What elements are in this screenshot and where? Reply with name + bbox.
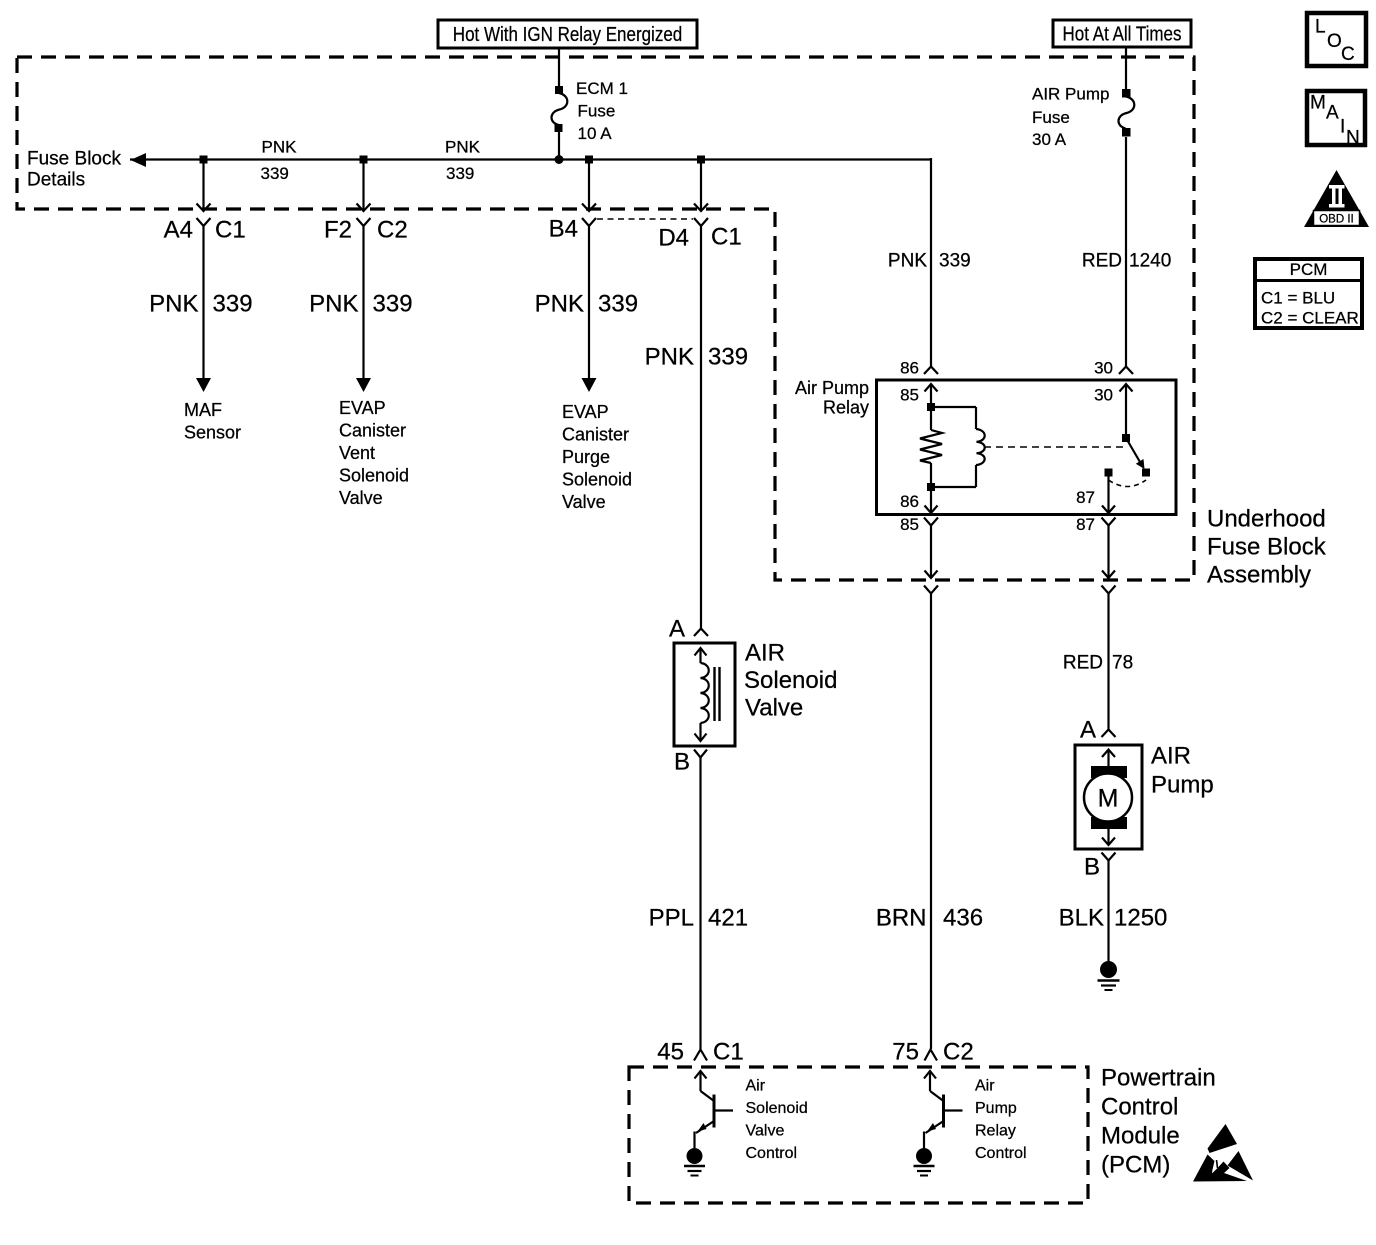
ESD sensitive device symbol: [1193, 1124, 1253, 1182]
svg-text:Fuse: Fuse: [1032, 108, 1070, 127]
svg-text:A4: A4: [164, 216, 193, 243]
svg-text:78: 78: [1112, 653, 1133, 674]
svg-text:Valve: Valve: [562, 492, 606, 512]
relay pin 85 arrow inside: [925, 384, 938, 404]
svg-text:Fuse Block: Fuse Block: [1207, 533, 1327, 560]
svg-text:1240: 1240: [1129, 251, 1171, 272]
connector Y F2/C2: [357, 218, 371, 226]
svg-text:Air: Air: [746, 1078, 766, 1095]
solenoid core bars: [713, 667, 715, 721]
svg-text:Canister: Canister: [339, 421, 406, 441]
junction B4 branch: [585, 156, 593, 164]
svg-text:RED: RED: [1063, 653, 1103, 674]
fuse AIR Pump 30A: [1118, 89, 1134, 137]
svg-text:339: 339: [446, 164, 474, 183]
svg-text:BRN: BRN: [876, 904, 927, 931]
svg-text:30: 30: [1094, 359, 1113, 378]
svg-text:Canister: Canister: [562, 425, 629, 445]
wire PNK 339 to MAF: [202, 226, 204, 379]
arrow into fuse block detail boundary: [197, 204, 211, 212]
svg-text:A: A: [669, 615, 685, 642]
svg-text:L: L: [1315, 17, 1326, 38]
svg-text:BLK: BLK: [1059, 904, 1104, 931]
relay coil resistor: [920, 411, 942, 483]
connector Y A4/C1: [197, 218, 211, 226]
svg-text:AIR Pump: AIR Pump: [1032, 85, 1109, 104]
wire PNK 339 bus corner to relay pin 86: [930, 158, 932, 366]
svg-text:N: N: [1346, 128, 1360, 149]
svg-text:Module: Module: [1101, 1122, 1180, 1149]
svg-text:Valve: Valve: [745, 694, 803, 721]
svg-text:O: O: [1327, 31, 1342, 52]
ground G107: [1098, 961, 1120, 990]
svg-text:Fuse Block: Fuse Block: [27, 149, 121, 170]
banner Hot With IGN Relay Energized: [438, 20, 697, 48]
svg-text:Air: Air: [975, 1078, 995, 1095]
connector at relay pin 30: [1119, 367, 1133, 375]
pin B connector of AIR pump: [1102, 853, 1116, 861]
relay switch common contact: [1122, 434, 1130, 442]
svg-text:D4: D4: [658, 224, 689, 251]
relay pin 30 arrow inside: [1120, 384, 1133, 434]
svg-text:Pump: Pump: [975, 1100, 1017, 1117]
connector 75 C2 at PCM: [925, 1050, 938, 1061]
svg-text:Hot At All Times: Hot At All Times: [1063, 22, 1182, 45]
connector Y B4: [582, 218, 596, 226]
transistor driver air pump relay control: [924, 1071, 963, 1148]
svg-text:45: 45: [657, 1038, 684, 1065]
svg-text:PNK: PNK: [888, 251, 927, 272]
junction A4 branch: [200, 156, 208, 164]
wire relay 85 to underhood boundary: [930, 526, 932, 579]
transistor driver air solenoid valve control: [695, 1071, 734, 1148]
wire B4 branch: [588, 160, 590, 211]
svg-text:10 A: 10 A: [578, 124, 613, 143]
banner Hot At All Times: [1053, 20, 1191, 47]
svg-text:Assembly: Assembly: [1207, 561, 1311, 588]
relay switch contact 87 side: [1142, 469, 1150, 477]
wire PNK 339 to EVAP vent valve: [362, 226, 364, 379]
connector Y D4/C1: [694, 218, 708, 226]
AIR pump box: [1075, 745, 1142, 849]
dashed connector group line B4 to D4: [597, 218, 693, 220]
svg-text:PCM: PCM: [1290, 260, 1328, 279]
svg-text:436: 436: [943, 904, 983, 931]
relay switch arm: [1126, 438, 1140, 462]
connector 45 C1 at PCM: [694, 1050, 707, 1061]
dashed boundary PCM: [629, 1067, 1088, 1203]
svg-text:339: 339: [373, 290, 413, 317]
dashed boundary fuse block / underhood assembly: [17, 57, 1194, 580]
svg-text:AIR: AIR: [745, 639, 785, 666]
dashed actuation link coil to switch: [984, 446, 1127, 448]
svg-text:Powertrain: Powertrain: [1101, 1064, 1216, 1091]
junction dot fuse/bus: [555, 155, 564, 164]
svg-text:30: 30: [1094, 386, 1113, 405]
svg-text:EVAP: EVAP: [339, 398, 386, 418]
svg-text:B: B: [1084, 853, 1100, 880]
fuse ECM 1 10A: [551, 86, 567, 132]
wire PNK 339 to AIR solenoid valve: [700, 226, 702, 628]
svg-text:Relay: Relay: [975, 1123, 1016, 1140]
arrowhead to EVAP purge valve: [582, 378, 597, 392]
svg-text:PNK: PNK: [309, 290, 358, 317]
connector at relay pin 86: [924, 367, 938, 375]
svg-text:M: M: [1098, 785, 1119, 813]
svg-text:86: 86: [900, 359, 919, 378]
svg-text:Purge: Purge: [562, 447, 610, 467]
svg-text:Underhood: Underhood: [1207, 505, 1326, 532]
dashed travel arc of switch: [1109, 480, 1147, 487]
wire F2 branch: [362, 160, 364, 211]
svg-text:Valve: Valve: [339, 488, 383, 508]
motor M inside AIR pump: [1084, 750, 1132, 846]
svg-text:PNK: PNK: [535, 290, 584, 317]
arrowhead to MAF sensor: [196, 378, 211, 392]
svg-text:Solenoid: Solenoid: [339, 466, 409, 486]
svg-text:OBD II: OBD II: [1319, 214, 1354, 226]
svg-text:Solenoid: Solenoid: [562, 470, 632, 490]
wire RED 1240 from AIR pump fuse to relay pin 30: [1125, 137, 1127, 366]
svg-text:339: 339: [213, 290, 253, 317]
svg-text:C: C: [1341, 44, 1355, 65]
wire from Hot At All Times banner to fuse: [1125, 47, 1127, 90]
ground inside PCM right: [914, 1148, 935, 1176]
svg-text:C2 = CLEAR: C2 = CLEAR: [1261, 309, 1359, 328]
junction relay coil bottom: [927, 483, 935, 491]
wire from IGN banner to fuse: [558, 48, 560, 87]
svg-text:Pump: Pump: [1151, 771, 1214, 798]
wire BLK 1250 to ground: [1107, 861, 1109, 963]
svg-text:C1: C1: [711, 223, 742, 250]
svg-text:86: 86: [900, 492, 919, 511]
svg-text:A: A: [1326, 103, 1339, 124]
arrow into fuse block detail boundary: [357, 204, 371, 212]
ground inside PCM left: [684, 1148, 705, 1176]
relay pin 87 arrow to box bottom: [1102, 477, 1115, 514]
connector below underhood boundary 85: [924, 586, 938, 594]
arrow into fuse block detail boundary: [582, 204, 596, 212]
svg-text:MAF: MAF: [184, 400, 222, 420]
svg-text:B: B: [674, 748, 690, 775]
svg-text:Fuse: Fuse: [578, 102, 616, 121]
svg-text:C1: C1: [215, 216, 246, 243]
arrow into fuse block detail boundary: [694, 204, 708, 212]
relay switch contact left: [1105, 469, 1113, 477]
svg-text:C2: C2: [377, 216, 408, 243]
svg-text:M: M: [1310, 93, 1326, 114]
svg-text:EVAP: EVAP: [562, 402, 609, 422]
connector below underhood boundary 87: [1102, 586, 1116, 594]
svg-text:C2: C2: [943, 1038, 974, 1065]
svg-text:30 A: 30 A: [1032, 130, 1067, 149]
svg-text:ECM 1: ECM 1: [576, 79, 628, 98]
svg-text:B4: B4: [549, 215, 578, 242]
relay pin 85 connector below box: [924, 518, 938, 526]
svg-text:339: 339: [598, 290, 638, 317]
wire relay 87 to underhood boundary: [1107, 526, 1109, 579]
junction D4 branch: [697, 156, 705, 164]
legend PCM connector colors: [1255, 259, 1362, 328]
svg-text:Control: Control: [1101, 1093, 1178, 1120]
svg-text:Control: Control: [746, 1145, 798, 1162]
relay pin 87 connector below box: [1102, 518, 1116, 526]
wire fuse to bus: [558, 131, 560, 160]
svg-text:(PCM): (PCM): [1101, 1151, 1170, 1178]
pin A connector of AIR pump: [1102, 730, 1116, 738]
svg-text:F2: F2: [324, 216, 352, 243]
svg-text:PNK: PNK: [645, 343, 694, 370]
junction F2 branch: [360, 156, 368, 164]
svg-text:RED: RED: [1082, 251, 1122, 272]
relay coil winding: [934, 407, 985, 487]
svg-text:PNK: PNK: [262, 138, 298, 157]
svg-text:87: 87: [1076, 488, 1095, 507]
svg-text:87: 87: [1076, 515, 1095, 534]
svg-text:339: 339: [708, 343, 748, 370]
junction relay coil top: [927, 403, 935, 411]
wire PPL 421 to PCM: [699, 758, 701, 1050]
pin B connector of AIR solenoid valve: [694, 750, 707, 758]
svg-text:I: I: [1340, 117, 1345, 138]
svg-text:Vent: Vent: [339, 443, 375, 463]
svg-text:Sensor: Sensor: [184, 423, 241, 443]
svg-text:Solenoid: Solenoid: [746, 1100, 808, 1117]
svg-text:Hot With IGN Relay Energized: Hot With IGN Relay Energized: [453, 23, 682, 46]
relay box Air Pump Relay: [877, 380, 1177, 515]
arrowhead to EVAP vent valve: [356, 378, 371, 392]
svg-text:AIR: AIR: [1151, 742, 1191, 769]
svg-text:A: A: [1080, 716, 1096, 743]
wire bus PNK 339: [130, 158, 931, 160]
wire D4 branch: [700, 160, 702, 211]
svg-text:C1 = BLU: C1 = BLU: [1261, 289, 1335, 308]
svg-text:Relay: Relay: [823, 398, 869, 418]
svg-text:PNK: PNK: [149, 290, 198, 317]
svg-text:Valve: Valve: [746, 1123, 785, 1140]
svg-text:421: 421: [708, 904, 748, 931]
svg-text:Air Pump: Air Pump: [795, 378, 869, 398]
svg-text:PNK: PNK: [445, 138, 481, 157]
svg-text:Details: Details: [27, 170, 85, 191]
wire BRN 436 to PCM: [930, 594, 932, 1050]
svg-text:Control: Control: [975, 1145, 1027, 1162]
solenoid coil inside valve: [695, 648, 720, 741]
svg-text:85: 85: [900, 386, 919, 405]
svg-text:75: 75: [892, 1038, 919, 1065]
svg-text:PPL: PPL: [649, 904, 694, 931]
OBD II symbol: [1304, 170, 1369, 227]
svg-text:C1: C1: [713, 1038, 744, 1065]
wire RED 78 to AIR pump: [1107, 594, 1109, 730]
legend MAIN box: [1307, 91, 1365, 149]
svg-text:339: 339: [939, 251, 971, 272]
svg-text:85: 85: [900, 515, 919, 534]
legend LOC box: [1307, 13, 1366, 66]
arrowhead to Fuse Block Details: [131, 153, 147, 167]
wire PNK 339 to EVAP purge valve: [588, 226, 590, 379]
wire A4 branch: [202, 160, 204, 211]
svg-text:Solenoid: Solenoid: [744, 667, 837, 694]
AIR solenoid valve box: [674, 643, 735, 746]
svg-text:339: 339: [261, 164, 289, 183]
svg-text:1250: 1250: [1114, 904, 1167, 931]
pin A connector of AIR solenoid valve: [694, 629, 708, 637]
relay pin 86 arrow to box bottom: [925, 491, 938, 513]
